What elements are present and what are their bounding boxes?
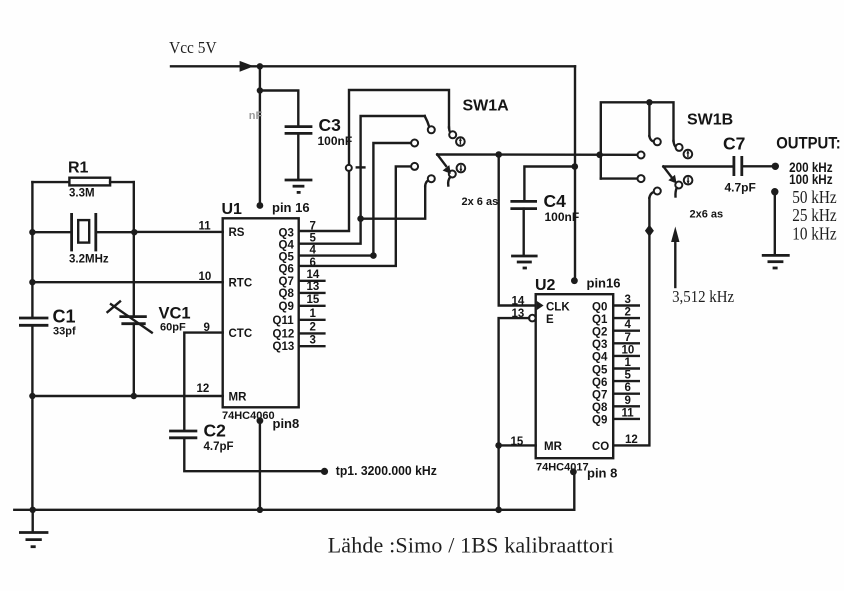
node rail A to ground rail xyxy=(30,507,36,513)
svg-text:5: 5 xyxy=(625,370,632,382)
wire C7 to output terminal xyxy=(742,165,772,167)
wire U2 CLK feed xyxy=(499,155,536,306)
svg-text:RTC: RTC xyxy=(229,278,253,290)
node U2 ground tap on rail xyxy=(495,507,502,514)
wire SW1B lower branch to contact b4 xyxy=(601,177,638,179)
pin U2 CLK with edge mark and number 14 xyxy=(512,296,571,314)
svg-text:Q1: Q1 xyxy=(592,314,608,326)
IC U2 74HC4017 box xyxy=(535,277,613,474)
svg-text:Q13: Q13 xyxy=(273,341,295,353)
svg-text:74HC4017: 74HC4017 xyxy=(536,462,589,474)
wire RTC pin10 xyxy=(32,281,222,283)
svg-text:6: 6 xyxy=(625,382,631,394)
node SW1A common junction to U2 clock xyxy=(495,151,502,158)
svg-text:MR: MR xyxy=(229,392,248,404)
wire U1 Q5 pin4 riser xyxy=(299,143,411,256)
label SW1A positions 2x 6 as xyxy=(462,196,499,208)
svg-text:pin 8: pin 8 xyxy=(587,466,617,481)
junction diamond on CO riser xyxy=(645,225,654,237)
svg-text:100nF: 100nF xyxy=(545,210,580,224)
svg-text:1: 1 xyxy=(310,308,317,320)
switch SW1B rotor arm with arrowhead xyxy=(663,167,676,184)
ground below output xyxy=(762,255,790,268)
node SW1B branch junction on common xyxy=(596,152,603,159)
wire MR pin12 xyxy=(32,395,222,397)
svg-text:Q3: Q3 xyxy=(279,227,294,239)
node crystal left junction xyxy=(29,229,35,235)
svg-text:tp1. 3200.000 kHz: tp1. 3200.000 kHz xyxy=(336,463,437,478)
svg-text:14: 14 xyxy=(512,296,525,308)
ground symbol bottom left xyxy=(19,510,48,547)
caption Lahde Simo xyxy=(328,533,614,558)
svg-text:SW1A: SW1A xyxy=(463,98,510,115)
artifact tick on Q4 riser xyxy=(357,166,365,168)
trimmer capacitor VC1 xyxy=(108,302,191,334)
svg-text:nF: nF xyxy=(249,110,263,122)
node RTC tap on rail A xyxy=(29,279,35,285)
wire C3 branch xyxy=(260,91,298,127)
wire SW1B tee drop to contact b2 xyxy=(649,102,653,141)
svg-text:3: 3 xyxy=(625,294,631,306)
svg-text:Q8: Q8 xyxy=(279,288,295,300)
wire RS pin11 to crystal xyxy=(134,231,222,233)
wire U1 Q4 pin5 riser xyxy=(299,116,430,244)
svg-text:15: 15 xyxy=(511,436,524,448)
svg-text:14: 14 xyxy=(307,269,320,281)
svg-text:C3: C3 xyxy=(319,115,342,135)
capacitor C4 branch wire xyxy=(524,167,574,201)
svg-text:VC1: VC1 xyxy=(159,305,191,323)
switch SW1B contact b1 xyxy=(638,152,645,159)
svg-text:Q4: Q4 xyxy=(592,352,608,364)
svg-text:4: 4 xyxy=(625,319,632,331)
ground below C4 xyxy=(511,256,537,268)
Vcc feed arrowhead xyxy=(240,61,254,72)
label OUTPUT and frequencies xyxy=(776,134,841,244)
svg-text:R1: R1 xyxy=(68,160,89,177)
pin U1 RS name and number 11 xyxy=(199,221,245,240)
svg-text:C7: C7 xyxy=(723,134,745,154)
pin U2 CO wire and number 12 xyxy=(592,198,649,453)
pin U1 RTC name and number 10 xyxy=(199,271,253,290)
artifact nF ghost xyxy=(249,110,263,122)
node U1 pin8 terminal xyxy=(257,416,300,431)
svg-text:9: 9 xyxy=(625,395,631,407)
svg-text:Q9: Q9 xyxy=(592,415,607,427)
svg-text:2x6 as: 2x6 as xyxy=(690,209,724,221)
switch SW1B rotor contact xyxy=(675,182,682,197)
switch SW1B label xyxy=(687,112,733,129)
node SW1B top tee xyxy=(646,99,652,105)
ground below C3 xyxy=(285,180,313,192)
node output ground stub terminal xyxy=(771,188,778,195)
svg-text:OUTPUT:: OUTPUT: xyxy=(776,134,841,153)
pins U2 Q0..Q9 names and stubs xyxy=(592,301,639,426)
pin numbers U1 right 7 5 4 6 14 13 15 1 2 3 xyxy=(307,221,320,347)
svg-text:E: E xyxy=(546,314,554,326)
switch SW1A rotor arm with arrowhead xyxy=(437,154,451,174)
svg-text:Q4: Q4 xyxy=(279,239,295,251)
svg-text:74HC4060: 74HC4060 xyxy=(222,410,275,422)
node VC1 bottom junction xyxy=(131,393,137,399)
node C4 tap on Vcc drop xyxy=(572,163,579,170)
wire Vcc top rail xyxy=(171,66,575,280)
svg-text:MR: MR xyxy=(544,441,563,453)
svg-text:11: 11 xyxy=(622,407,635,419)
svg-text:CTC: CTC xyxy=(229,328,253,340)
pin U2 MR wire and number 15 xyxy=(499,436,563,453)
wire U1 pin8 to ground rail xyxy=(259,421,261,510)
wire Vcc drop to U1 pin16 xyxy=(259,66,261,204)
net Vcc label xyxy=(169,38,217,57)
node tp1 terminal xyxy=(321,463,437,478)
switch SW1A contact c3 xyxy=(428,126,435,133)
svg-text:15: 15 xyxy=(307,294,320,306)
pin U2 E with bubble and number 13 xyxy=(512,308,555,326)
wire CTC pin9 xyxy=(184,333,222,431)
svg-text:pin8: pin8 xyxy=(273,416,300,431)
pin numbers U2 right 3 2 4 7 10 1 5 6 9 11 xyxy=(622,294,635,419)
svg-text:C2: C2 xyxy=(204,421,227,441)
switch SW1B contact b3 xyxy=(676,144,683,151)
switch SW1A rotor contact xyxy=(448,171,456,186)
switch SW1A label xyxy=(463,98,510,115)
svg-text:C4: C4 xyxy=(544,191,567,211)
svg-text:Q2: Q2 xyxy=(592,327,607,339)
switch SW1A rotation mark up xyxy=(456,137,465,146)
switch SW1B contact b2 xyxy=(654,138,661,145)
wire U1 Q3 pin7 riser to SW1A top contact xyxy=(299,90,453,231)
node Q4 riser T junction xyxy=(357,215,364,222)
pin U1 CTC name and number 9 xyxy=(204,322,253,340)
svg-text:C1: C1 xyxy=(53,307,76,327)
svg-text:2: 2 xyxy=(310,322,316,334)
svg-text:Vcc 5V: Vcc 5V xyxy=(169,38,217,57)
wire MR junction to ground rail xyxy=(497,445,499,509)
svg-text:12: 12 xyxy=(625,434,638,446)
wire SW1B common to C7 xyxy=(663,165,733,167)
switch SW1A contact c4 xyxy=(411,163,418,170)
svg-text:2: 2 xyxy=(625,307,631,319)
wire C2 down to tp1 line xyxy=(184,438,321,471)
svg-text:Q7: Q7 xyxy=(279,276,294,288)
svg-text:Q5: Q5 xyxy=(279,252,295,264)
capacitor C4 xyxy=(510,191,579,255)
svg-text:Q6: Q6 xyxy=(592,377,607,389)
svg-text:Q12: Q12 xyxy=(273,328,295,340)
svg-text:33pf: 33pf xyxy=(53,326,76,338)
node U2 MR junction xyxy=(495,442,502,449)
wire output ground stub xyxy=(774,192,776,255)
crystal X1 3.2MHz xyxy=(32,213,134,266)
node MR tap on rail A xyxy=(29,393,35,399)
svg-text:4.7pF: 4.7pF xyxy=(725,181,756,195)
svg-text:60pF: 60pF xyxy=(160,322,186,334)
svg-text:Q5: Q5 xyxy=(592,364,608,376)
svg-text:U1: U1 xyxy=(222,201,243,218)
wire bottom ground rail xyxy=(14,472,574,510)
resistor R1 xyxy=(32,160,133,200)
svg-text:3: 3 xyxy=(310,334,316,346)
wire SW1A lower contact to Q4 riser xyxy=(361,180,429,218)
node U2 pin16 terminal xyxy=(571,276,620,291)
annotation 3,512 kHz arrow xyxy=(671,227,734,307)
svg-text:CLK: CLK xyxy=(546,301,570,313)
node Vcc junction at x260 xyxy=(257,63,263,69)
capacitor C7 xyxy=(723,134,756,195)
switch SW1A rotation mark down xyxy=(457,164,466,173)
svg-text:3.3M: 3.3M xyxy=(69,188,95,200)
node U2 pin8 terminal xyxy=(570,466,617,481)
svg-text:Q6: Q6 xyxy=(279,264,294,276)
pins U1 Q3..Q13 names xyxy=(273,227,295,353)
svg-text:3.2MHz: 3.2MHz xyxy=(69,254,109,266)
svg-text:10: 10 xyxy=(622,344,635,356)
node U1 pin16 terminal xyxy=(257,200,310,215)
switch SW1B contact b4 xyxy=(638,175,645,182)
svg-text:4.7pF: 4.7pF xyxy=(204,441,234,453)
wire node A vertical left rail xyxy=(31,182,33,510)
wire U2 E to MR junction xyxy=(499,318,529,445)
switch SW1A contact c2 xyxy=(449,131,456,138)
wire node B vertical right of R1 xyxy=(133,182,135,396)
svg-text:50 kHz: 50 kHz xyxy=(792,187,837,207)
svg-text:3,512 kHz: 3,512 kHz xyxy=(672,287,734,306)
svg-text:12: 12 xyxy=(197,383,210,395)
svg-text:pin16: pin16 xyxy=(587,276,621,291)
capacitor C1 xyxy=(19,307,76,338)
svg-text:SW1B: SW1B xyxy=(687,112,733,129)
svg-text:Q11: Q11 xyxy=(273,315,295,327)
node Q5 riser corner dot xyxy=(370,252,377,259)
capacitor C3 xyxy=(285,127,313,179)
svg-text:1: 1 xyxy=(625,357,632,369)
node C3 tap junction xyxy=(257,87,263,93)
switch SW1A contact c5 xyxy=(428,175,435,182)
pins U1 right stubs Q7-Q13 unconnected xyxy=(299,281,325,346)
capacitor C2 xyxy=(169,421,233,454)
svg-text:100 kHz: 100 kHz xyxy=(789,172,833,187)
switch SW1B contact b5 from CO riser xyxy=(649,188,660,199)
wire SW1A common to SW1B contact b1 xyxy=(437,153,637,156)
svg-text:Q0: Q0 xyxy=(592,301,607,313)
svg-text:RS: RS xyxy=(229,227,245,239)
svg-text:25 kHz: 25 kHz xyxy=(792,205,837,225)
svg-text:7: 7 xyxy=(625,332,631,344)
svg-text:CO: CO xyxy=(592,441,609,453)
node OUTPUT terminal xyxy=(772,163,779,170)
svg-text:Q9: Q9 xyxy=(279,301,294,313)
wire SW1B upper frame xyxy=(601,102,676,178)
svg-text:10 kHz: 10 kHz xyxy=(792,224,837,244)
switch SW1B rotation mark down xyxy=(684,176,693,185)
switch SW1B rotation mark up xyxy=(684,150,693,159)
pin U1 MR name and number 12 xyxy=(197,383,248,404)
svg-text:2x 6 as: 2x 6 as xyxy=(462,196,499,208)
svg-text:Q3: Q3 xyxy=(592,339,607,351)
svg-text:13: 13 xyxy=(307,281,320,293)
svg-text:Q8: Q8 xyxy=(592,402,608,414)
artifact hop circle on Q3 riser xyxy=(346,165,352,171)
svg-text:Q7: Q7 xyxy=(592,390,607,402)
label SW1B positions 2x6 as xyxy=(690,209,724,221)
node U1 pin8 at ground rail xyxy=(257,507,263,513)
wire U1 Q6 pin6 riser xyxy=(299,166,411,266)
svg-text:pin 16: pin 16 xyxy=(272,200,310,215)
switch SW1A contact c1 xyxy=(411,140,418,147)
svg-text:Lähde :Simo / 1BS kalibraattor: Lähde :Simo / 1BS kalibraattori xyxy=(328,533,614,558)
node crystal right junction xyxy=(131,229,137,235)
op IC U1 74HC4060 box xyxy=(222,201,299,422)
svg-text:U2: U2 xyxy=(535,277,556,294)
label C3 value xyxy=(318,115,353,148)
svg-text:100nF: 100nF xyxy=(318,134,353,148)
